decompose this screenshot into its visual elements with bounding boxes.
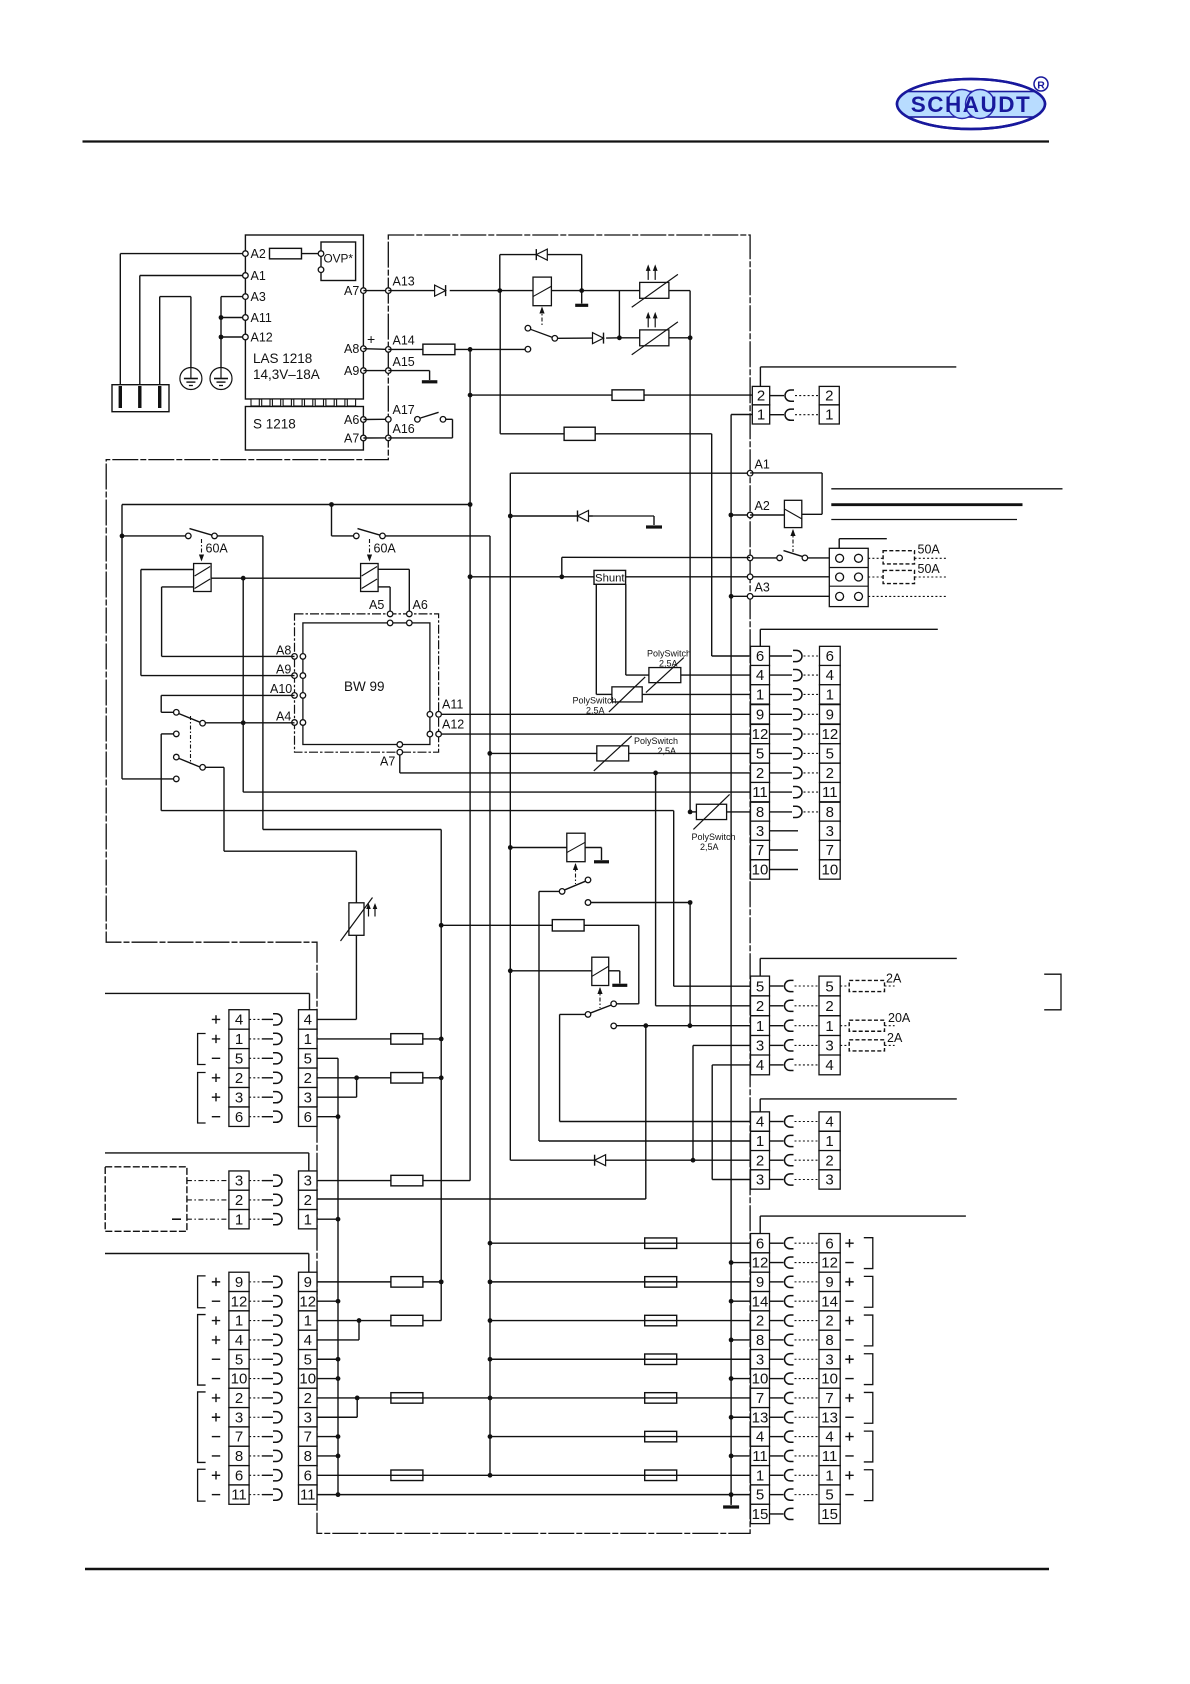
- wire A15: [388, 370, 429, 372]
- wire: [105, 1253, 309, 1255]
- switch S2 contact: [354, 533, 360, 539]
- crimp lead: [262, 1358, 273, 1360]
- wire pin6A: [317, 1116, 338, 1118]
- mating link: [795, 1179, 820, 1181]
- svg-text:A15: A15: [393, 355, 415, 369]
- wire: [885, 985, 895, 987]
- junction: [468, 574, 473, 579]
- crimp lead: [770, 1455, 784, 1457]
- connector pin 9: [229, 1272, 249, 1291]
- svg-text:7: 7: [235, 1429, 243, 1446]
- crimp contact: [273, 1014, 282, 1025]
- wire A6 to A17: [363, 418, 388, 420]
- changeover pivot: [552, 336, 558, 342]
- junction: [357, 1318, 362, 1323]
- svg-text:3: 3: [756, 823, 764, 840]
- crimp lead: [770, 811, 793, 813]
- fuse 20A: [849, 1020, 884, 1031]
- boundary terminal A13: [386, 288, 392, 294]
- svg-text:6: 6: [756, 1235, 764, 1252]
- svg-text:10: 10: [822, 862, 839, 879]
- crimp lead: [262, 1077, 273, 1079]
- connector pin 1: [820, 685, 841, 704]
- connector pin 6: [820, 646, 841, 665]
- connector pin 4: [819, 1055, 840, 1075]
- heater bus left: [618, 291, 620, 338]
- crimp lead: [770, 1044, 784, 1046]
- mating link: [804, 674, 820, 676]
- junction: [439, 1037, 444, 1042]
- wire: [560, 1013, 586, 1015]
- wire: [581, 255, 583, 291]
- svg-text:5: 5: [235, 1050, 243, 1067]
- connector pin 5: [229, 1049, 249, 1068]
- crimp contact: [273, 1392, 282, 1403]
- terminal A3: [747, 594, 753, 600]
- wire down: [262, 536, 264, 830]
- svg-text:R: R: [1037, 80, 1045, 92]
- wire: [122, 535, 186, 537]
- charger LAS 1218 box: [245, 235, 363, 399]
- polarity: [212, 1494, 220, 1496]
- wire down: [711, 1065, 713, 1180]
- wire: [868, 595, 948, 597]
- svg-text:A7: A7: [380, 755, 395, 769]
- wire plus to pin 4D: [490, 1436, 751, 1438]
- connector pin 3: [299, 1088, 318, 1107]
- crimp contact: [273, 1053, 282, 1064]
- wire: [162, 586, 194, 588]
- mating link: [804, 772, 820, 774]
- svg-text:9: 9: [756, 1274, 764, 1291]
- svg-text:8: 8: [304, 1448, 312, 1465]
- crimp contact: [785, 390, 794, 401]
- wire minus to pin 13D: [731, 1416, 750, 1418]
- crimp contact: [784, 1135, 793, 1146]
- mating link: [804, 713, 820, 715]
- svg-text:A10: A10: [270, 682, 292, 696]
- wire: [429, 371, 431, 380]
- connector pin 2: [752, 386, 769, 405]
- svg-text:4: 4: [756, 1057, 764, 1074]
- svg-text:7: 7: [756, 842, 764, 859]
- wire: [331, 505, 333, 536]
- svg-text:2: 2: [825, 1313, 833, 1330]
- junction: [336, 1299, 341, 1304]
- crimp lead: [770, 1416, 784, 1418]
- svg-text:3: 3: [235, 1409, 243, 1426]
- polarity: [212, 1057, 220, 1059]
- mating link: [804, 811, 820, 813]
- svg-text:3: 3: [756, 1172, 764, 1189]
- connector pin 6: [751, 646, 770, 665]
- Shunt box: [594, 570, 626, 584]
- connector pin 2: [819, 996, 840, 1016]
- svg-text:A17: A17: [393, 403, 415, 417]
- junction: [729, 513, 734, 518]
- mating link: [795, 1494, 820, 1496]
- svg-text:1: 1: [235, 1211, 243, 1228]
- fuse on A14: [423, 344, 455, 355]
- junction: [643, 1023, 648, 1028]
- connector pin 13: [819, 1408, 840, 1427]
- crimp lead: [262, 1018, 273, 1020]
- crimp contact: [784, 1155, 793, 1166]
- svg-text:2: 2: [756, 1152, 764, 1169]
- electroblock boundary outline: [106, 235, 750, 1533]
- crimp lead: [262, 1116, 273, 1118]
- wire: [499, 255, 501, 291]
- wire to OVP: [302, 253, 322, 255]
- wire pin4B: [712, 1064, 750, 1066]
- mating link: [795, 1397, 820, 1399]
- battery terminal block: [829, 548, 868, 606]
- group bracket: [864, 1431, 873, 1462]
- svg-text:2: 2: [826, 765, 834, 782]
- connector pin 11: [229, 1485, 249, 1504]
- crimp contact: [793, 670, 802, 681]
- junction: [617, 335, 622, 340]
- crimp lead: [770, 693, 793, 695]
- svg-text:5: 5: [304, 1050, 312, 1067]
- wire: [596, 693, 612, 695]
- crimp lead: [249, 1096, 262, 1098]
- svg-text:A2: A2: [755, 499, 770, 513]
- fuse: [645, 1315, 677, 1326]
- connector pin 9: [751, 1272, 770, 1291]
- fuse: [645, 1393, 677, 1404]
- polarity: [845, 1262, 853, 1264]
- mating link: [795, 1044, 820, 1046]
- BW99 pin A12 inner: [427, 731, 433, 737]
- svg-text:11: 11: [231, 1487, 247, 1504]
- mating link: [795, 1436, 820, 1438]
- crimp contact: [273, 1072, 282, 1083]
- fuse: [391, 1034, 423, 1045]
- crimp contact: [793, 806, 802, 817]
- crimp contact: [273, 1354, 282, 1365]
- wire: [105, 1152, 309, 1154]
- connector pin 2: [820, 763, 841, 782]
- connector pin 3: [229, 1408, 249, 1427]
- wire N to A1: [140, 275, 246, 277]
- crimp lead: [262, 1199, 273, 1201]
- crimp lead: [249, 1378, 262, 1380]
- polarity: [845, 1355, 853, 1363]
- diode D3: [593, 333, 604, 344]
- wire minus to pin 11D: [731, 1455, 750, 1457]
- junction: [508, 514, 513, 519]
- wire A16: [388, 437, 452, 439]
- wire to freewheel diode D4: [510, 515, 592, 517]
- svg-text:10: 10: [752, 1371, 769, 1388]
- ground: [594, 860, 609, 863]
- wire A12: [221, 336, 245, 338]
- svg-text:50A: 50A: [918, 562, 941, 576]
- junction: [688, 335, 693, 340]
- wire to pin 11: [243, 791, 750, 793]
- wire: [915, 557, 948, 559]
- junction: [729, 1492, 734, 1497]
- wire: [626, 674, 649, 676]
- svg-text:A16: A16: [393, 422, 415, 436]
- wire: [770, 395, 784, 397]
- svg-text:20A: 20A: [888, 1011, 911, 1025]
- connector pin 6: [229, 1107, 249, 1126]
- switch S1 lever: [190, 529, 213, 536]
- wire pin2C: [510, 1159, 594, 1161]
- polarity: [212, 1413, 220, 1421]
- svg-text:6: 6: [826, 648, 834, 665]
- wire A3 to earth bus: [221, 296, 245, 298]
- wire to A8: [162, 655, 295, 657]
- crimp lead: [770, 1242, 784, 1244]
- svg-text:A11: A11: [442, 698, 463, 712]
- svg-text:LAS 1218: LAS 1218: [253, 351, 312, 366]
- svg-text:6: 6: [235, 1467, 243, 1484]
- wire pin3F: [317, 1416, 357, 1418]
- wire down: [538, 891, 540, 1141]
- relay K4 coil: [592, 957, 609, 985]
- fuse: [391, 1175, 423, 1186]
- comb contacts under charger: [251, 399, 356, 406]
- mating link: [795, 1358, 820, 1360]
- crimp contact: [784, 1020, 793, 1031]
- mating link: [795, 1416, 820, 1418]
- svg-text:8: 8: [826, 804, 834, 821]
- svg-text:7: 7: [756, 1390, 764, 1407]
- svg-text:8: 8: [825, 1332, 833, 1349]
- junction: [488, 1357, 493, 1362]
- connector pin 4: [229, 1010, 249, 1029]
- crimp contact: [785, 409, 794, 420]
- crimp lead: [770, 1300, 784, 1302]
- switch contact: [440, 417, 446, 423]
- crimp lead: [770, 1474, 784, 1476]
- svg-text:1: 1: [756, 686, 764, 703]
- connector pin 12: [820, 724, 841, 743]
- wire to pin 6: [712, 655, 751, 657]
- connector pin 15: [751, 1504, 770, 1523]
- wire A7 down: [399, 755, 401, 773]
- boundary terminal A14: [386, 347, 392, 353]
- wire pin12F: [317, 1300, 338, 1302]
- crimp lead: [249, 1116, 262, 1118]
- charger pin A12: [243, 334, 249, 340]
- svg-text:10: 10: [821, 1371, 838, 1388]
- svg-text:2A: 2A: [886, 972, 902, 986]
- wire to ground: [581, 291, 583, 304]
- svg-text:A7: A7: [344, 432, 359, 446]
- mating link: [795, 1262, 820, 1264]
- polarity: [845, 1278, 853, 1286]
- junction: [729, 1376, 734, 1381]
- battery box: [105, 1167, 187, 1232]
- wire to heaters: [582, 290, 620, 292]
- crimp lead: [770, 655, 793, 657]
- connector pin 1: [752, 405, 769, 424]
- wire down: [645, 1026, 647, 1199]
- polarity: [212, 1336, 220, 1344]
- wire: [263, 829, 441, 831]
- connector pin 2: [751, 996, 770, 1016]
- switch S2 lever: [358, 529, 381, 536]
- svg-text:A7: A7: [344, 284, 359, 298]
- S1218 pin A6: [361, 417, 367, 423]
- junction: [497, 288, 502, 293]
- dash-dot actuation S2: [369, 539, 371, 557]
- svg-text:1: 1: [756, 1467, 764, 1484]
- fuse: [645, 1470, 677, 1481]
- junction: [488, 1279, 493, 1284]
- crimp lead: [262, 1300, 273, 1302]
- mating link: [795, 395, 819, 397]
- connector pin 9: [751, 705, 770, 724]
- crimp contact: [273, 1296, 282, 1307]
- wire pin3B: [693, 1044, 751, 1046]
- wire: [490, 752, 597, 754]
- junction: [729, 1415, 734, 1420]
- connector pin 9: [299, 1272, 318, 1291]
- svg-text:11: 11: [822, 1448, 838, 1465]
- wire K1 node down: [499, 291, 501, 434]
- junction: [729, 1299, 734, 1304]
- crimp contact: [784, 1392, 793, 1403]
- wire: [358, 1321, 360, 1340]
- connector pin 7: [819, 1388, 840, 1407]
- crimp lead: [249, 1038, 262, 1040]
- svg-text:15: 15: [821, 1506, 838, 1523]
- crimp contact: [793, 709, 802, 720]
- polarity: [212, 1093, 220, 1101]
- crimp contact: [784, 1296, 793, 1307]
- crimp contact: [784, 1470, 793, 1481]
- group bracket: [864, 1238, 873, 1269]
- external wire: [760, 366, 956, 368]
- wire: [656, 1005, 751, 1007]
- connector pin 1: [751, 1131, 770, 1150]
- connector pin 3: [751, 821, 770, 840]
- crimp contact: [793, 767, 802, 778]
- wire pivot to diode: [558, 337, 593, 339]
- svg-text:11: 11: [822, 784, 838, 801]
- dash-dot actuation K3: [575, 864, 577, 884]
- svg-text:3: 3: [756, 1351, 764, 1368]
- svg-text:A8: A8: [276, 644, 291, 658]
- svg-text:7: 7: [304, 1429, 312, 1446]
- svg-text:60A: 60A: [206, 542, 229, 556]
- mating link: [804, 752, 820, 754]
- svg-text:2: 2: [304, 1192, 312, 1209]
- BW99 pin A10 outer: [292, 693, 298, 699]
- junction: [219, 315, 224, 320]
- connector pin 6: [751, 1234, 770, 1253]
- switch contact: [777, 555, 783, 561]
- wire heater to pin4: [355, 935, 357, 1019]
- junction: [439, 923, 444, 928]
- wire into pin4C: [759, 1099, 761, 1112]
- junction: [488, 1396, 493, 1401]
- fuse: [645, 1238, 677, 1249]
- crimp lead: [770, 791, 793, 793]
- connector pin 1: [751, 1466, 770, 1485]
- wire: [669, 337, 690, 339]
- svg-text:3: 3: [825, 1172, 833, 1189]
- mating link: [795, 1378, 820, 1380]
- crimp contact: [784, 1354, 793, 1365]
- connector pin 11: [751, 782, 770, 801]
- svg-text:1: 1: [304, 1313, 312, 1330]
- plus bus 1 (60A S1): [440, 830, 442, 1321]
- svg-text:3: 3: [304, 1409, 312, 1426]
- svg-text:5: 5: [756, 745, 764, 762]
- wire from aux pin 2: [317, 1198, 646, 1200]
- fuse: [391, 1393, 423, 1404]
- group bracket: [198, 1034, 206, 1065]
- throw contact: [585, 900, 591, 906]
- svg-text:7: 7: [826, 842, 834, 859]
- crimp contact: [784, 1334, 793, 1345]
- wire pin3C: [712, 1179, 750, 1181]
- wire A12 to pin 12: [439, 733, 751, 735]
- wire PE down: [190, 297, 192, 368]
- wire: [840, 985, 849, 987]
- plug prong: [158, 386, 161, 408]
- polarity: [845, 1394, 853, 1402]
- fuse: [612, 390, 644, 401]
- svg-text:12: 12: [231, 1293, 248, 1310]
- wire: [161, 733, 173, 735]
- fuse: [391, 1277, 423, 1288]
- connector pin 4: [299, 1330, 318, 1349]
- fuse 50A: [883, 551, 914, 564]
- wire: [452, 419, 454, 438]
- svg-text:3: 3: [825, 1038, 833, 1055]
- crimp contact: [784, 1489, 793, 1500]
- junction: [488, 1241, 493, 1246]
- connector pin 1: [299, 1311, 318, 1330]
- diode D1: [435, 285, 446, 296]
- wire: [616, 1003, 638, 1005]
- wire to pin 4: [681, 674, 751, 676]
- BW99 pin A4 inner: [300, 720, 306, 726]
- crimp contact: [793, 787, 802, 798]
- svg-text:A8: A8: [344, 342, 359, 356]
- wire to fuse: [470, 394, 612, 396]
- wire: [356, 1078, 358, 1097]
- wire into pin9F: [308, 1254, 310, 1273]
- fuse: [270, 248, 302, 259]
- svg-text:5: 5: [825, 978, 833, 995]
- wire: [423, 1180, 470, 1182]
- connector pin 2: [751, 1311, 770, 1330]
- svg-text:2,5A: 2,5A: [659, 659, 678, 669]
- wire minus to pin 14D: [731, 1300, 750, 1302]
- crimp lead: [249, 1300, 262, 1302]
- connector pin 3: [819, 1350, 840, 1369]
- plug prong: [119, 386, 122, 408]
- svg-text:3: 3: [756, 1038, 764, 1055]
- wire to pin 1: [642, 693, 750, 695]
- connector pin 7: [229, 1427, 249, 1446]
- svg-text:OVP*: OVP*: [324, 252, 354, 266]
- connector pin 1: [229, 1311, 249, 1330]
- crimp lead: [249, 1218, 262, 1220]
- throw contact: [611, 1023, 617, 1029]
- BW99 pin A8 outer: [292, 654, 298, 660]
- dash-dot actuation K4: [599, 988, 601, 1008]
- boiler heating element: [341, 898, 378, 942]
